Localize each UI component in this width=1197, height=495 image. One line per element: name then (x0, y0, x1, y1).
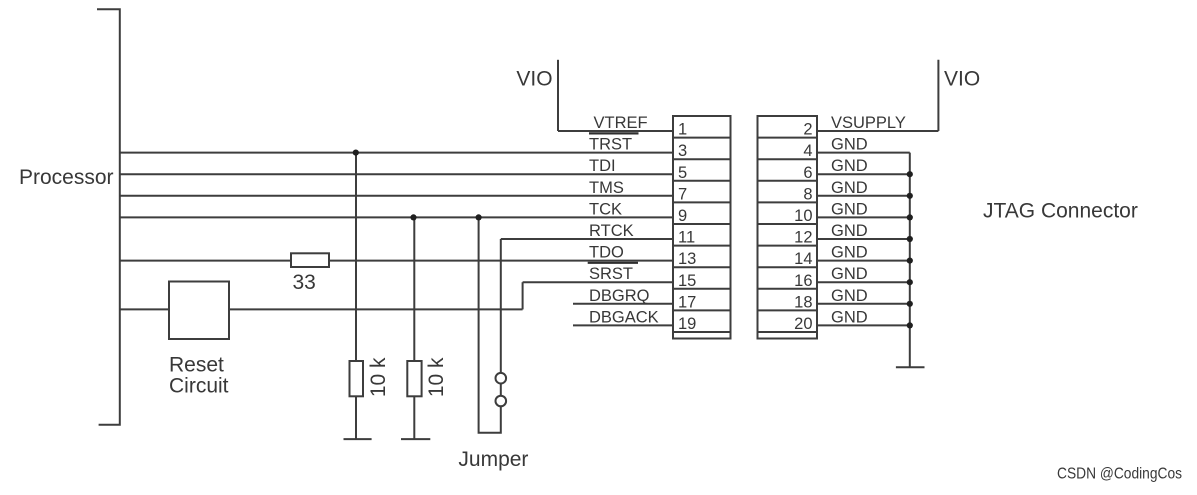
svg-text:Reset: Reset (169, 354, 224, 377)
svg-text:33: 33 (293, 271, 316, 294)
svg-text:GND: GND (831, 200, 868, 218)
svg-text:DBGACK: DBGACK (589, 308, 659, 326)
svg-text:19: 19 (678, 315, 696, 333)
svg-text:10 k: 10 k (367, 357, 390, 397)
svg-text:GND: GND (831, 222, 868, 240)
svg-text:GND: GND (831, 157, 868, 175)
svg-text:11: 11 (678, 229, 695, 247)
svg-text:12: 12 (794, 229, 812, 247)
svg-text:GND: GND (831, 308, 868, 326)
svg-text:10 k: 10 k (425, 357, 448, 397)
svg-text:VTREF: VTREF (594, 114, 648, 132)
svg-text:6: 6 (803, 164, 812, 182)
svg-text:VIO: VIO (944, 68, 980, 91)
svg-text:DBGRQ: DBGRQ (589, 287, 650, 305)
svg-text:17: 17 (678, 293, 696, 311)
svg-text:VSUPPLY: VSUPPLY (831, 114, 906, 132)
svg-text:8: 8 (803, 185, 812, 203)
svg-text:GND: GND (831, 265, 868, 283)
svg-text:20: 20 (794, 315, 812, 333)
svg-text:GND: GND (831, 179, 868, 197)
svg-text:9: 9 (678, 207, 687, 225)
svg-text:JTAG Connector: JTAG Connector (983, 200, 1138, 223)
svg-text:GND: GND (831, 244, 868, 262)
svg-text:Processor: Processor (19, 166, 114, 189)
svg-text:14: 14 (794, 250, 812, 268)
svg-text:CSDN @CodingCos: CSDN @CodingCos (1057, 466, 1182, 483)
svg-text:TCK: TCK (589, 200, 622, 218)
svg-text:18: 18 (794, 293, 812, 311)
svg-text:2: 2 (803, 121, 812, 139)
svg-text:TRST: TRST (589, 136, 632, 154)
svg-text:RTCK: RTCK (589, 222, 634, 240)
svg-text:GND: GND (831, 136, 868, 154)
svg-text:Jumper: Jumper (458, 448, 528, 471)
svg-text:SRST: SRST (589, 265, 633, 283)
svg-text:TDI: TDI (589, 157, 616, 175)
svg-text:13: 13 (678, 250, 696, 268)
svg-text:4: 4 (803, 142, 812, 160)
svg-text:10: 10 (794, 207, 812, 225)
svg-text:GND: GND (831, 287, 868, 305)
svg-text:TMS: TMS (589, 179, 624, 197)
svg-text:16: 16 (794, 272, 812, 290)
svg-text:1: 1 (678, 121, 687, 139)
svg-text:7: 7 (678, 185, 687, 203)
svg-text:TDO: TDO (589, 244, 624, 262)
svg-text:3: 3 (678, 142, 687, 160)
svg-text:VIO: VIO (516, 68, 552, 91)
svg-text:Circuit: Circuit (169, 375, 229, 398)
svg-text:5: 5 (678, 164, 687, 182)
svg-text:15: 15 (678, 272, 696, 290)
